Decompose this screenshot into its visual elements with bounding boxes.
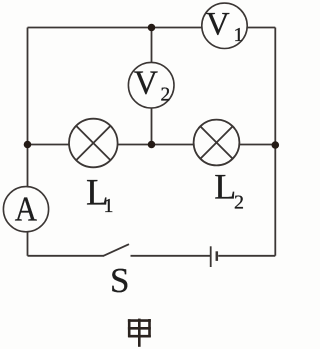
- node left (middle wire on left wire): [24, 141, 32, 149]
- voltmeter V1: [202, 3, 247, 48]
- wire middle right segment: [239, 144, 275, 146]
- voltmeter V2: [128, 62, 174, 108]
- svg-text:2: 2: [161, 85, 171, 106]
- svg-text:V: V: [206, 6, 230, 43]
- wire middle center segment: [118, 144, 194, 146]
- wire V2 branch lower: [151, 108, 153, 145]
- wire left vertical lower: [27, 232, 29, 256]
- label L2: [214, 167, 244, 214]
- svg-text:1: 1: [234, 24, 244, 46]
- wire V1 to top-right corner: [247, 27, 275, 29]
- wire middle left segment: [28, 144, 70, 146]
- wire bottom left segment: [28, 255, 105, 257]
- svg-text:V: V: [134, 65, 158, 102]
- wire bottom right segment: [218, 255, 275, 257]
- wire V2 branch upper: [151, 28, 153, 63]
- svg-text:A: A: [15, 191, 37, 229]
- node mid (V2 tap on middle wire): [148, 141, 156, 149]
- svg-text:2: 2: [234, 191, 244, 213]
- wire left vertical upper: [27, 28, 29, 187]
- wire bottom middle segment: [131, 255, 211, 257]
- wire top horizontal: [28, 27, 203, 29]
- switch S: [104, 244, 130, 256]
- node top (V2 tap on top wire): [148, 24, 156, 32]
- svg-text:1: 1: [104, 195, 114, 217]
- label L1: [86, 172, 114, 217]
- wire right vertical: [274, 28, 276, 256]
- battery cell: long plate: [210, 246, 212, 267]
- node right (middle wire on right wire): [272, 141, 280, 149]
- ammeter A: [3, 187, 48, 232]
- lamp L2: [194, 120, 240, 166]
- label 甲 (drawn strokes): [128, 319, 151, 347]
- svg-text:L: L: [214, 167, 236, 207]
- lamp L1: [69, 119, 118, 168]
- svg-text:S: S: [110, 261, 129, 300]
- battery cell: short thick plate: [216, 251, 219, 261]
